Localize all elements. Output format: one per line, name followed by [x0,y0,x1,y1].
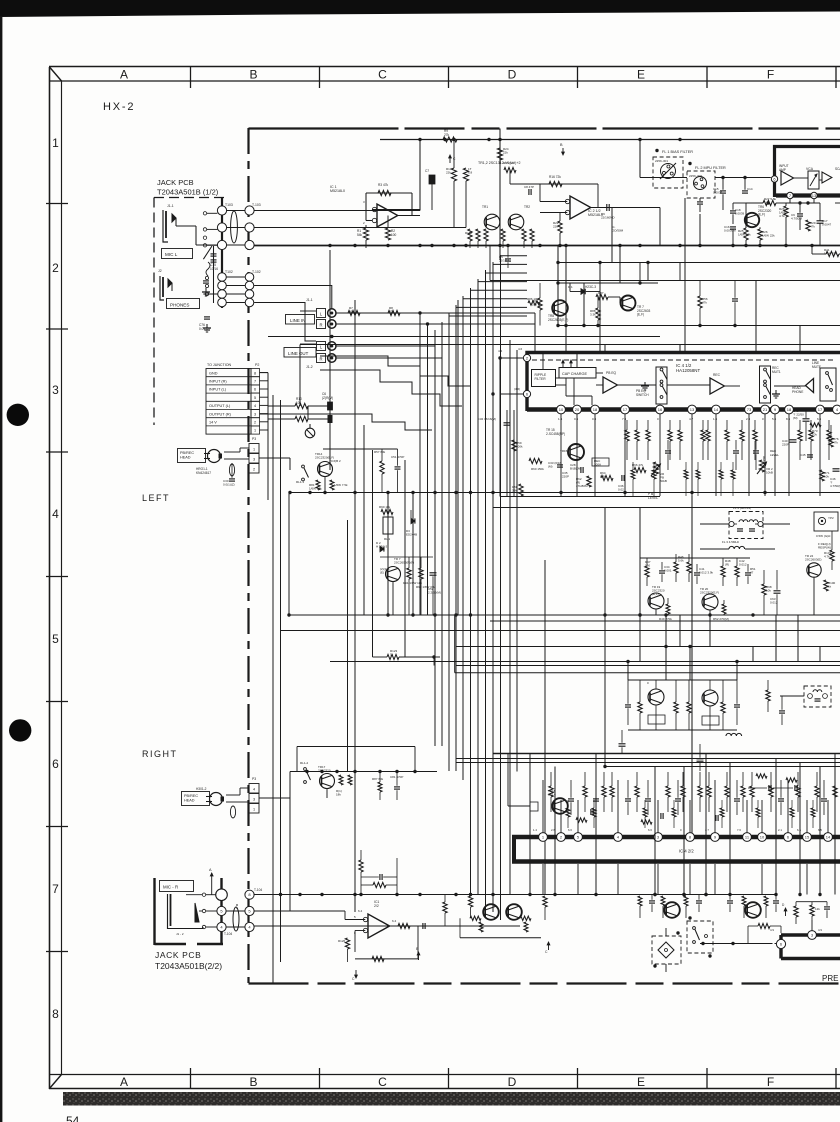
svg-text:H23C-3: H23C-3 [585,285,596,289]
svg-text:RL 1: RL 1 [384,537,391,541]
svg-text:3: 3 [253,797,255,801]
svg-text:220P: 220P [562,475,569,479]
svg-text:PHONES: PHONES [170,303,189,308]
svg-text:D: D [508,68,517,82]
svg-text:RESP(W): RESP(W) [818,546,831,550]
svg-text:RL1-1: RL1-1 [296,480,305,484]
svg-text:E: E [637,1075,645,1089]
svg-text:1.4: 1.4 [558,417,563,421]
svg-text:4: 4 [52,507,59,521]
svg-text:D: D [508,1075,517,1089]
svg-text:GND: GND [209,371,218,375]
svg-text:0.0(1)(Z): 0.0(1)(Z) [223,483,235,487]
svg-text:2-SC458(NP): 2-SC458(NP) [546,432,565,436]
svg-text:4.7: 4.7 [689,417,694,421]
svg-text:R66 47k: R66 47k [632,463,644,467]
svg-text:C14: C14 [747,187,753,191]
svg-text:HX-2: HX-2 [103,101,135,113]
svg-text:1k: 1k [390,653,394,657]
svg-text:10: 10 [760,835,765,840]
svg-text:F: F [767,1075,774,1089]
svg-text:17: 17 [818,407,823,412]
svg-text:TR2: TR2 [524,205,530,209]
svg-text:SWITCH: SWITCH [636,393,649,397]
svg-text:MIC - R: MIC - R [163,885,178,890]
svg-text:VCA: VCA [806,167,814,171]
svg-text:C8 47P: C8 47P [524,185,534,189]
svg-text:(3.6): (3.6) [514,387,520,391]
svg-text:MUT1: MUT1 [772,370,781,374]
svg-text:10/16: 10/16 [210,267,218,271]
svg-text:OUTPUT (R): OUTPUT (R) [209,412,232,416]
svg-text:220P: 220P [782,443,789,447]
svg-text:1/6W 7.5k: 1/6W 7.5k [334,483,348,487]
svg-text:REC: REC [713,373,721,377]
svg-text:R60 150k: R60 150k [531,467,544,471]
svg-text:R52 270(M): R52 270(M) [713,617,729,621]
svg-text:14: 14 [714,407,719,412]
svg-text:4.7/50(M): 4.7/50(M) [830,484,840,488]
svg-text:18: 18 [593,407,598,412]
svg-text:T102: T102 [225,270,233,274]
svg-text:4.9: 4.9 [818,928,822,932]
svg-text:0.9: 0.9 [592,417,597,421]
svg-text:0.0039: 0.0039 [735,212,745,216]
svg-text:FL 2 MPU FILTER: FL 2 MPU FILTER [695,166,726,170]
svg-text:T-102: T-102 [252,270,261,274]
svg-text:22k: 22k [503,151,508,155]
svg-text:R16 72k: R16 72k [549,175,561,179]
svg-text:1k: 1k [828,585,832,589]
svg-text:REC: REC [762,456,766,463]
svg-text:LINE OUT: LINE OUT [288,351,309,356]
svg-text:(M): (M) [793,416,798,420]
svg-text:4.7k: 4.7k [824,555,830,559]
svg-text:1.5: 1.5 [713,417,718,421]
svg-text:6.6: 6.6 [648,828,652,832]
svg-text:12k: 12k [815,907,820,911]
svg-text:FILTER: FILTER [535,377,547,381]
svg-text:7: 7 [254,380,256,384]
svg-text:18k: 18k [336,793,341,797]
svg-text:6: 6 [52,757,59,771]
svg-text:14: 14 [826,835,831,840]
svg-text:7: 7 [52,882,59,896]
svg-text:7.6: 7.6 [737,828,741,832]
svg-text:17: 17 [623,407,628,412]
svg-text:1: 1 [254,429,256,433]
svg-text:LEFT: LEFT [142,493,170,503]
svg-text:100k: 100k [516,445,523,449]
svg-text:(Z)R(M): (Z)R(M) [322,396,333,400]
svg-text:4: 4 [254,404,256,408]
svg-text:KN424617: KN424617 [196,471,211,475]
svg-text:C: C [378,68,387,82]
svg-text:13: 13 [812,193,817,198]
svg-text:225K-306: 225K-306 [689,174,702,178]
svg-text:B: B [249,1075,257,1089]
svg-text:B: B [249,68,257,82]
svg-text:7.9: 7.9 [622,417,627,421]
svg-text:J1-1: J1-1 [306,298,313,302]
svg-text:4.7k: 4.7k [779,214,785,218]
svg-text:P2: P2 [255,363,259,367]
svg-text:0.012 3.9k: 0.012 3.9k [699,571,714,575]
svg-text:P3: P3 [252,777,256,781]
svg-text:10k: 10k [766,589,771,593]
svg-text:(0.6)B 2: (0.6)B 2 [330,459,341,463]
svg-text:RL1-2: RL1-2 [300,761,309,765]
svg-text:2.1: 2.1 [778,828,782,832]
svg-text:22k: 22k [446,171,451,175]
svg-text:5.6: 5.6 [772,417,777,421]
svg-text:A: A [120,1075,128,1089]
svg-text:5.6k: 5.6k [678,559,684,563]
svg-text:C32 35/16(M): C32 35/16(M) [478,417,496,421]
svg-text:IC 4 2/2: IC 4 2/2 [679,849,694,854]
svg-text:8.6: 8.6 [786,417,791,421]
svg-text:8: 8 [52,1007,59,1021]
svg-text:3: 3 [52,383,59,397]
svg-text:PB EQ: PB EQ [606,371,617,375]
svg-text:2.9: 2.9 [746,417,751,421]
svg-text:1/6W 22k: 1/6W 22k [762,234,775,238]
svg-text:LEVEL: LEVEL [770,453,779,457]
svg-text:16: 16 [658,407,663,412]
svg-text:C45: C45 [800,453,806,457]
svg-text:1.4: 1.4 [533,828,537,832]
svg-text:ED244B: ED244B [406,533,417,537]
svg-text:(M): (M) [548,465,553,469]
svg-text:0.0039M: 0.0039M [724,229,736,233]
svg-text:4.9: 4.9 [770,928,774,932]
svg-text:4.6: 4.6 [518,347,523,351]
svg-text:6.6: 6.6 [568,828,572,832]
svg-text:PRE: PRE [822,974,838,983]
svg-text:10k: 10k [824,475,829,479]
svg-text:CAP CHARGE: CAP CHARGE [562,372,588,376]
svg-text:LEVEL: LEVEL [648,496,658,500]
svg-text:(E,F): (E,F) [637,313,644,317]
svg-text:T2043A501B(2/2): T2043A501B(2/2) [155,961,222,971]
svg-text:H301-2: H301-2 [196,787,207,791]
svg-text:22k: 22k [553,225,558,229]
svg-text:10kB: 10kB [766,471,773,475]
svg-text:PB/REC: PB/REC [180,451,194,455]
svg-text:2SC2603(E,F): 2SC2603(E,F) [548,318,568,322]
svg-text:T2043A501B (1/2): T2043A501B (1/2) [157,188,219,197]
svg-text:R87 60k: R87 60k [372,777,384,781]
svg-text:P3: P3 [252,437,256,441]
svg-text:J1 - 2: J1 - 2 [176,932,184,936]
svg-text:4.7/50M: 4.7/50M [791,217,802,221]
svg-text:PB/REC: PB/REC [184,794,198,798]
svg-text:27k: 27k [444,133,450,137]
svg-text:5: 5 [52,632,59,646]
svg-text:2SC2320: 2SC2320 [318,769,331,773]
svg-text:3: 3 [254,412,256,416]
svg-text:FL 1 BIAS FILTER: FL 1 BIAS FILTER [662,150,693,154]
svg-text:1/6W 18k: 1/6W 18k [738,233,751,237]
svg-text:47k: 47k [702,301,707,305]
svg-text:10k: 10k [598,295,603,299]
svg-text:3.3k: 3.3k [590,313,596,317]
svg-text:R90 10k: R90 10k [379,505,391,509]
svg-text:54: 54 [66,1114,80,1122]
svg-text:(R): (R) [725,563,729,567]
svg-text:INPUT (R): INPUT (R) [209,380,227,384]
svg-text:0.5: 0.5 [574,417,579,421]
svg-text:100: 100 [645,564,650,568]
svg-text:F: F [767,68,774,82]
svg-text:JACK PCB: JACK PCB [157,178,194,187]
svg-text:M5218L0: M5218L0 [330,189,345,193]
svg-text:RIGHT: RIGHT [142,749,178,759]
svg-text:4: 4 [253,787,255,791]
svg-text:TR1,2 2SC1312-V1(LH)+2: TR1,2 2SC1312-V1(LH)+2 [478,161,520,165]
svg-text:6.4: 6.4 [358,909,363,913]
svg-text:TR1: TR1 [482,205,488,209]
svg-text:R: R [319,322,322,327]
svg-text:MIC L: MIC L [165,252,178,257]
svg-text:0.0039: 0.0039 [713,191,723,195]
svg-text:101: 101 [296,401,302,405]
svg-text:6.8k: 6.8k [600,475,606,479]
svg-text:GD/50M: GD/50M [612,229,624,233]
svg-text:SCA: SCA [835,167,840,171]
svg-text:225K-301: 225K-301 [655,159,668,163]
svg-text:2: 2 [253,467,255,471]
svg-text:C: C [378,1075,387,1089]
svg-text:54k: 54k [357,233,363,237]
svg-text:2: 2 [254,421,256,425]
svg-text:OUTPUT (L): OUTPUT (L) [209,404,231,408]
svg-text:50kB: 50kB [660,479,667,483]
svg-text:22/160ND: 22/160ND [601,216,615,220]
svg-text:HEAD: HEAD [180,455,191,459]
svg-text:2SC2603(F)(F): 2SC2603(F)(F) [394,561,414,565]
svg-text:JACK PCB: JACK PCB [155,950,201,960]
svg-text:47k/80M: 47k/80M [576,484,588,488]
svg-text:C7: C7 [425,169,429,173]
svg-text:T-104: T-104 [254,888,262,892]
svg-text:TR15: TR15 [560,449,568,453]
svg-text:2SC2603(E): 2SC2603(E) [805,558,822,562]
svg-text:0.0047: 0.0047 [822,223,832,227]
svg-text:R57 60k: R57 60k [374,450,386,454]
svg-text:6.8: 6.8 [468,171,473,175]
svg-text:47k: 47k [810,225,815,229]
svg-text:J1-2: J1-2 [306,365,313,369]
svg-text:0.012: 0.012 [739,563,747,567]
svg-text:D 1: D 1 [568,285,573,289]
svg-text:1: 1 [253,447,255,451]
svg-text:R15k: R15k [465,231,473,235]
svg-text:YP2: YP2 [828,516,834,520]
svg-text:13: 13 [690,407,695,412]
svg-text:LINE IN: LINE IN [290,318,305,323]
svg-text:18: 18 [787,407,792,412]
svg-text:10k: 10k [812,433,817,437]
svg-text:T-103: T-103 [252,203,261,207]
svg-text:TO JUNCTION: TO JUNCTION [207,363,231,367]
svg-text:6: 6 [254,388,256,392]
svg-text:J1-1: J1-1 [167,204,174,208]
svg-text:R3 47k: R3 47k [378,183,389,187]
svg-text:2/2: 2/2 [374,904,379,908]
svg-text:0.001: 0.001 [664,569,672,573]
svg-text:HA12058NT: HA12058NT [676,368,700,373]
svg-text:15: 15 [805,835,810,840]
svg-text:A: A [120,68,128,82]
svg-text:B/(B)(M): B/(B)(M) [570,467,581,471]
svg-text:(E): (E) [380,571,384,575]
svg-text:R126: R126 [338,939,346,943]
svg-text:4.4: 4.4 [498,349,503,353]
svg-text:6.6: 6.6 [797,828,801,832]
svg-text:6.6: 6.6 [817,417,822,421]
svg-text:E: E [637,68,645,82]
svg-text:10: 10 [559,407,564,412]
svg-text:6.4: 6.4 [392,919,397,923]
svg-text:INPUT (L): INPUT (L) [209,388,227,392]
svg-text:FL 4 (005-43): FL 4 (005-43) [733,506,751,510]
svg-text:0.5W (G)Ω: 0.5W (G)Ω [816,534,831,538]
svg-text:20: 20 [575,407,580,412]
svg-text:R: R [319,356,322,361]
svg-text:2.2/50(M): 2.2/50(M) [428,591,441,595]
svg-text:5: 5 [254,396,256,400]
svg-text:47k: 47k [833,441,838,445]
svg-text:56k: 56k [349,310,354,314]
svg-text:1/6W 18k: 1/6W 18k [309,487,322,491]
svg-text:HEAD: HEAD [184,798,195,802]
svg-text:1: 1 [253,807,255,811]
svg-text:FL 3 4.5MHz: FL 3 4.5MHz [722,540,740,544]
svg-text:73: 73 [747,407,752,412]
svg-text:3: 3 [253,457,255,461]
svg-text:PHONE: PHONE [792,390,803,394]
svg-text:R27 5.6k: R27 5.6k [764,197,777,201]
svg-text:2: 2 [52,261,59,275]
svg-text:T103: T103 [225,203,233,207]
svg-text:R86 10k: R86 10k [527,297,539,301]
svg-text:T-104: T-104 [224,932,232,936]
svg-text:0.02: 0.02 [618,488,624,492]
svg-text:8: 8 [254,371,256,375]
svg-text:1: 1 [52,136,59,150]
svg-text:21: 21 [763,407,768,412]
svg-text:J2: J2 [158,269,162,273]
svg-text:100: 100 [391,233,397,237]
svg-text:14 V: 14 V [209,421,217,425]
svg-text:47k: 47k [389,310,394,314]
svg-text:47: 47 [750,571,754,575]
